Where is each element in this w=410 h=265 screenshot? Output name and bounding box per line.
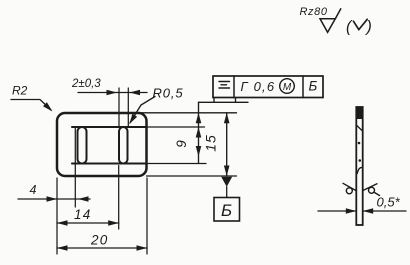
dim 2±0,3 line	[78, 92, 147, 94]
frame leader horizontal	[199, 101, 249, 103]
extension line slot left	[118, 88, 120, 127]
extension line slot right	[127, 88, 129, 127]
MMC circled M	[280, 79, 295, 94]
svg-text:14: 14	[74, 207, 91, 222]
R0,5 leader	[130, 97, 155, 123]
dim 9 line	[198, 102, 200, 163]
hatch dot 1	[358, 142, 361, 145]
extension part right below	[146, 178, 148, 254]
dim 2±0,3 arrows	[107, 90, 118, 96]
dim 0,5 line right	[363, 210, 406, 212]
extension slot bottom right	[147, 163, 207, 165]
feature control frame	[213, 76, 323, 98]
strip hatch solid top	[356, 107, 362, 119]
frame leader stub right	[235, 98, 237, 103]
svg-text:0,5*: 0,5*	[377, 195, 401, 210]
svg-text:2±0,3: 2±0,3	[71, 78, 101, 90]
dim 4 line	[18, 198, 90, 200]
svg-text:Б: Б	[309, 79, 318, 94]
symmetry symbol	[219, 81, 230, 83]
svg-text:М: М	[283, 82, 292, 93]
svg-text:(: (	[346, 19, 353, 36]
dim 14 line	[57, 222, 119, 224]
left slot capsule	[78, 127, 87, 164]
svg-text:15: 15	[203, 134, 219, 152]
hatch stroke 1	[357, 126, 362, 131]
extension top edge right	[140, 112, 237, 114]
svg-text:20: 20	[90, 233, 108, 248]
hatch dot 2	[359, 159, 362, 162]
dim 0,5 line left	[318, 210, 356, 212]
R2 leader	[11, 100, 51, 111]
extension slot top right	[147, 126, 205, 128]
side view strip outline	[356, 107, 362, 225]
svg-text:9: 9	[174, 140, 189, 148]
svg-text:R2: R2	[12, 84, 28, 98]
svg-text:R0,5: R0,5	[153, 86, 184, 101]
extension bottom edge right	[147, 175, 237, 177]
svg-text:Rz80: Rz80	[300, 6, 328, 18]
datum box	[214, 198, 240, 222]
roughness symbol triangle	[320, 19, 335, 33]
right curl	[363, 184, 377, 191]
svg-text:Б: Б	[221, 201, 232, 220]
frame leader stub left	[213, 98, 215, 103]
datum triangle	[221, 177, 232, 187]
slot opening top edge	[72, 126, 147, 128]
roughness symbol arm	[335, 9, 341, 19]
slot opening bottom edge	[72, 162, 147, 164]
frame leader arrow	[196, 113, 202, 124]
datum stem	[226, 187, 228, 198]
part outline main view	[57, 113, 147, 176]
hatch stroke 2	[357, 167, 362, 173]
extension capsule right below	[118, 166, 120, 230]
extension capsule left below	[74, 128, 76, 207]
extension part left below	[56, 178, 58, 254]
left curl	[343, 183, 356, 190]
svg-text:Г 0,6: Г 0,6	[241, 79, 276, 94]
dim 20 line	[57, 247, 147, 249]
dim 15 line	[226, 113, 228, 176]
svg-text:4: 4	[30, 183, 37, 197]
right slot capsule	[119, 127, 128, 164]
